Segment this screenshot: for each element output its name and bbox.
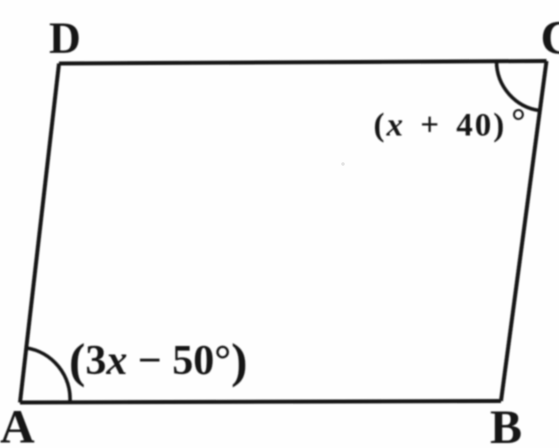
wire side CD (top) xyxy=(59,61,547,64)
svg-text:C: C xyxy=(541,12,559,65)
svg-text:B: B xyxy=(490,401,522,448)
svg-text:A: A xyxy=(0,401,35,448)
wire side DA (left) xyxy=(20,64,59,403)
angle arc at A xyxy=(26,348,70,402)
angle arc at C xyxy=(497,61,540,110)
wire side BC (right) xyxy=(501,61,547,401)
svg-text:D: D xyxy=(49,14,81,63)
wire side AB (bottom) xyxy=(20,401,501,403)
svg-text:(3x − 50°): (3x − 50°) xyxy=(69,333,247,388)
svg-text:(x + 40)°: (x + 40)° xyxy=(374,101,528,144)
